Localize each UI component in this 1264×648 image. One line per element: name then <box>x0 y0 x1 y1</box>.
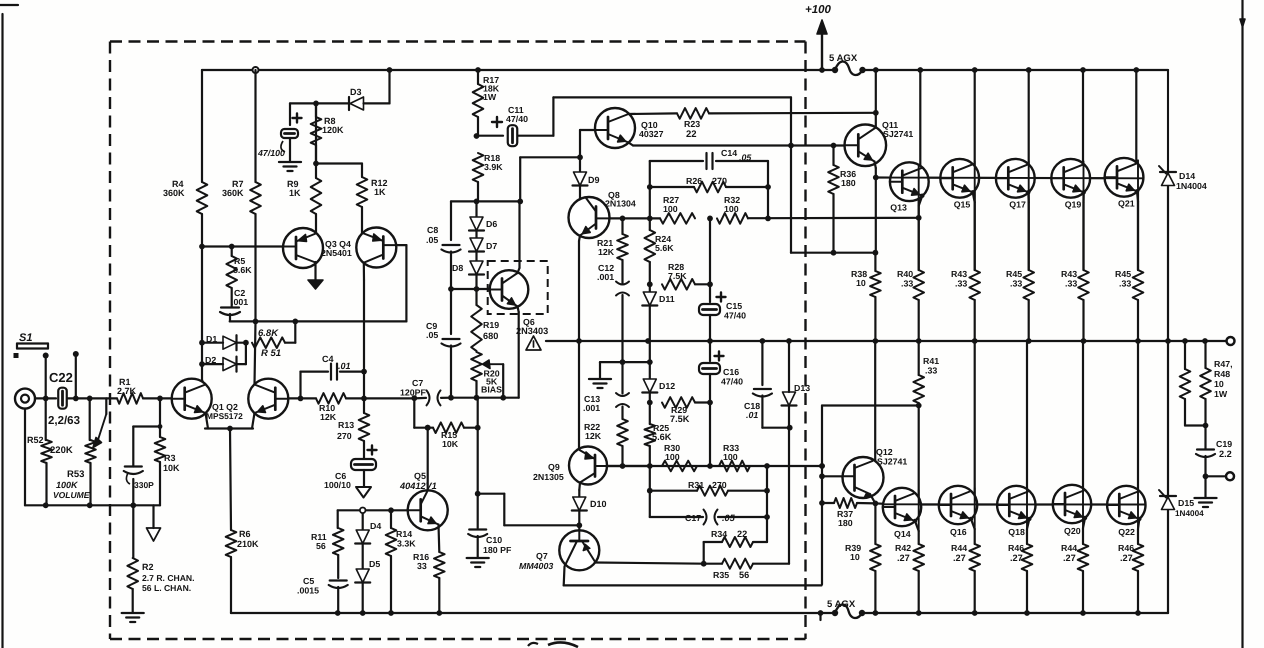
transistor Q14 <box>883 488 921 526</box>
dashed amplifier enclosure box <box>110 42 806 640</box>
svg-text:5.6K: 5.6K <box>233 265 252 275</box>
wire input ground line <box>25 504 160 506</box>
svg-text:2N1304: 2N1304 <box>605 199 636 209</box>
svg-text:1K: 1K <box>374 187 386 197</box>
transistor Q2 MPS5172 <box>248 379 288 419</box>
capacitor C16 47/40 <box>709 341 711 361</box>
svg-text:Q15: Q15 <box>954 199 971 209</box>
svg-text:R48: R48 <box>1214 369 1230 379</box>
capacitor C8 .05 <box>443 244 460 246</box>
wire Q8 emitter to output bus <box>579 236 580 242</box>
svg-text:10: 10 <box>850 552 860 562</box>
dashed box around Q6 <box>488 261 548 314</box>
resistor R2 2.7/56 <box>132 505 134 558</box>
svg-text:R45: R45 <box>1006 269 1022 279</box>
wire Q15 emitter column <box>974 178 976 270</box>
wire R34/R35 left vertical <box>703 542 705 564</box>
svg-text:47/40: 47/40 <box>721 377 743 387</box>
svg-text:6.8K: 6.8K <box>258 328 279 339</box>
wire Q3 base line <box>202 245 232 247</box>
resistor R19 680 <box>475 289 477 305</box>
svg-text:33: 33 <box>417 561 427 571</box>
resistor R4 360K <box>201 70 203 182</box>
node bottom rail junctions <box>335 610 341 616</box>
transistor Q5 40412V1 <box>408 490 448 530</box>
svg-text:R41: R41 <box>923 356 939 366</box>
svg-text:10: 10 <box>856 278 866 288</box>
svg-text:C15: C15 <box>726 301 742 311</box>
svg-text:5.6K: 5.6K <box>652 432 672 442</box>
capacitor C3 47/100 with ground <box>290 102 316 104</box>
wire Q9 base line <box>607 465 650 467</box>
wire C7 line dots <box>451 397 519 399</box>
svg-text:Q5: Q5 <box>414 471 426 481</box>
wire Q11 collector drop <box>875 70 877 113</box>
wire Q15 emitter diag <box>973 192 975 202</box>
resistor R33 100 <box>719 461 750 472</box>
wire Q10 emitter line <box>629 143 634 146</box>
wire output bus (y=341) <box>546 340 1228 342</box>
wire Q17 column overlay <box>1028 161 1030 202</box>
wire Q17 emitter diag <box>1027 192 1030 202</box>
wire Q21 collector <box>1135 70 1137 177</box>
wire Q20 emitter diag <box>1083 518 1085 528</box>
svg-text:R31: R31 <box>688 480 704 490</box>
svg-text:R23: R23 <box>684 119 700 129</box>
wire Q18 column overlay <box>1026 488 1028 529</box>
wire Q16 emitter diag <box>971 519 975 529</box>
svg-text:D9: D9 <box>588 175 600 185</box>
svg-text:1K: 1K <box>289 188 301 198</box>
svg-text:22: 22 <box>737 529 747 539</box>
svg-text:R40: R40 <box>897 269 913 279</box>
transistor Q20 <box>1053 485 1091 523</box>
wire Q10 base corner <box>580 129 595 131</box>
wire R34 right vertical <box>766 466 768 542</box>
svg-text:10K: 10K <box>442 439 459 449</box>
resistor R43 .33 (top row) <box>969 270 980 300</box>
resistor R29 7.5K <box>662 397 695 408</box>
wire Q6 collector up <box>518 268 520 273</box>
svg-text:10K: 10K <box>163 463 180 473</box>
svg-text:Q21: Q21 <box>1118 198 1135 208</box>
wire top bus corner down to D14 <box>1167 70 1169 170</box>
svg-text:330P: 330P <box>134 480 154 490</box>
wire Q14 column overlay <box>918 490 920 531</box>
diode D14 <box>1167 170 1169 172</box>
resistor R23 22 <box>629 112 678 115</box>
resistor R14 3.3K <box>390 510 392 528</box>
wire Q12 emitter node <box>870 494 875 503</box>
svg-text:R42: R42 <box>895 543 911 553</box>
svg-text:R2: R2 <box>142 562 154 572</box>
svg-text:12K: 12K <box>585 431 602 441</box>
svg-text:40412V1: 40412V1 <box>399 481 437 491</box>
svg-text:R13: R13 <box>338 420 354 430</box>
page frame right edge <box>1241 0 1243 648</box>
page frame left edge <box>1 14 3 648</box>
svg-text:C16: C16 <box>723 367 739 377</box>
svg-text:.27: .27 <box>1063 553 1076 563</box>
transistor Q8 2N1304 <box>569 197 610 238</box>
transistor Q15 <box>940 159 979 198</box>
transistor Q11 SJ2741 <box>845 125 887 167</box>
svg-text:56 L. CHAN.: 56 L. CHAN. <box>142 583 191 593</box>
wire Q13 emitter diag <box>919 196 923 206</box>
wire Q20 collector <box>1082 341 1084 504</box>
wire Q6 base line <box>448 286 454 292</box>
svg-text:MM4003: MM4003 <box>519 561 553 571</box>
svg-text:2.7K: 2.7K <box>117 386 137 396</box>
svg-text:7.5K: 7.5K <box>668 271 687 281</box>
svg-text:C10: C10 <box>486 535 502 545</box>
svg-text:R34: R34 <box>711 529 727 539</box>
wire Q21 column overlay <box>1137 160 1139 201</box>
resistor R39 10 <box>874 503 876 544</box>
ground below C10 <box>467 557 489 559</box>
svg-text:22: 22 <box>686 129 697 140</box>
resistor R21 12K <box>621 218 623 234</box>
svg-text:C5: C5 <box>303 576 314 586</box>
wire Q14 emitter diag <box>915 521 919 531</box>
svg-text:C19: C19 <box>1216 439 1232 449</box>
wire R31 left vertical <box>649 466 651 517</box>
transistor Q6 2N3403 <box>490 270 529 309</box>
svg-text:56: 56 <box>739 570 749 580</box>
arrow to negative below Q3 <box>314 262 316 280</box>
svg-text:Q20: Q20 <box>1064 526 1081 536</box>
svg-text:R6: R6 <box>239 529 251 539</box>
svg-text:.27: .27 <box>953 553 966 563</box>
wire Q17 collector <box>1028 70 1030 178</box>
svg-text:2.7 R. CHAN.: 2.7 R. CHAN. <box>142 573 195 583</box>
wire Q18 collector <box>1026 341 1028 505</box>
resistor R1 2.7K <box>117 393 143 404</box>
node output bus junctions <box>576 338 582 344</box>
svg-text:.0015: .0015 <box>297 586 319 596</box>
+100 supply arrow <box>821 33 823 70</box>
resistor R28 7.5K <box>662 279 695 290</box>
svg-text:R26: R26 <box>686 176 702 186</box>
resistor R13 270 <box>361 396 367 402</box>
wire R27/R32 junction <box>707 216 713 222</box>
svg-text:47/40: 47/40 <box>724 311 746 321</box>
wire Q19 column overlay <box>1083 161 1085 202</box>
svg-text:2N5401: 2N5401 <box>321 248 352 258</box>
potentiometer R53 100K VOLUME <box>89 398 91 440</box>
svg-text:D14: D14 <box>1179 171 1195 181</box>
transistor Q16 <box>939 486 977 524</box>
svg-text:40327: 40327 <box>639 129 664 139</box>
wire Q19 emitter diag <box>1082 192 1084 202</box>
potentiometer R20 5K BIAS <box>471 352 482 381</box>
capacitor C17 .05 <box>650 516 703 518</box>
wire Q16 collector <box>974 341 976 505</box>
svg-text:.001: .001 <box>231 297 248 307</box>
svg-text:R45: R45 <box>1115 269 1131 279</box>
svg-text:.001: .001 <box>583 403 600 413</box>
svg-text:270: 270 <box>337 431 352 441</box>
capacitor C18 .01 <box>754 388 771 390</box>
wire Q12 base line <box>822 475 843 477</box>
output terminal (-) <box>1226 472 1234 480</box>
resistor R6 210K <box>226 530 237 557</box>
wire to lower terminal <box>1206 475 1226 477</box>
diode D15 <box>1167 341 1169 495</box>
resistor R32 100 <box>717 213 748 224</box>
resistor R52 220K <box>45 398 47 440</box>
svg-text:360K: 360K <box>222 188 244 198</box>
wire C14/R26 right vertical <box>767 161 769 218</box>
capacitor C22 2.2/63 <box>58 388 67 409</box>
resistor R31 270 <box>650 490 697 492</box>
wire C12/C13 ground stub <box>620 359 626 365</box>
ground arrow below C6 <box>356 487 371 498</box>
svg-text:R44: R44 <box>951 543 967 553</box>
svg-text:Q9: Q9 <box>548 462 560 472</box>
svg-text:SJ2741: SJ2741 <box>883 129 913 139</box>
resistor R11 56 <box>337 510 339 528</box>
svg-text:180: 180 <box>841 178 856 188</box>
resistor R15 10K <box>414 427 433 429</box>
svg-text:680: 680 <box>483 331 498 341</box>
resistor R40 .33 (top row) <box>913 270 924 300</box>
svg-text:Q7: Q7 <box>536 551 548 561</box>
svg-text:100: 100 <box>723 452 738 462</box>
svg-text:R46: R46 <box>1008 543 1024 553</box>
svg-text:120K: 120K <box>322 125 344 135</box>
diode D8 <box>475 252 477 261</box>
resistor R46 .27 (bottom row) <box>1133 544 1144 571</box>
transistor Q21 <box>1105 158 1144 197</box>
wire Q12 collector to output bus <box>874 341 876 461</box>
capacitor C1 330P <box>132 479 134 505</box>
resistor R8 120K <box>315 103 317 117</box>
capacitor C13 .001 <box>621 362 623 393</box>
capacitor C2 .001 <box>231 288 233 307</box>
svg-text:D6: D6 <box>486 219 497 229</box>
wire Q7 lower lead line <box>563 567 566 586</box>
svg-text:2N3403: 2N3403 <box>516 326 548 336</box>
resistor R45 .33 (top row) <box>1133 270 1144 300</box>
svg-text:.05: .05 <box>426 235 438 245</box>
svg-text:5 AGX: 5 AGX <box>827 599 856 610</box>
svg-text:D13: D13 <box>794 383 810 393</box>
svg-text:7.5K: 7.5K <box>670 414 690 424</box>
diode D6 <box>475 201 477 217</box>
diode D7 <box>475 231 477 238</box>
wire Q22 column overlay <box>1137 488 1139 529</box>
svg-text:.33: .33 <box>1065 279 1077 289</box>
wire +100 top bus (right of fuse) <box>863 69 1169 71</box>
resistor R27 100 <box>660 213 695 224</box>
svg-text:100: 100 <box>663 204 678 214</box>
transistor Q3 2N5401 <box>283 228 323 268</box>
svg-text:100: 100 <box>665 452 680 462</box>
capacitor C11 47/40 bootstrap <box>478 135 503 137</box>
resistor R47 10 1W <box>1184 341 1186 369</box>
svg-text:C4: C4 <box>322 354 334 364</box>
wire +100 top bus (left of fuse) <box>202 69 835 71</box>
svg-text:R35: R35 <box>713 570 729 580</box>
wire bottom rail (left of fuse) <box>231 612 835 614</box>
svg-text:.33: .33 <box>901 279 913 289</box>
svg-text:Q13: Q13 <box>890 203 907 213</box>
wire Q6 emitter down <box>518 307 519 313</box>
svg-text:D11: D11 <box>659 294 675 304</box>
wire Q1 collector column <box>201 214 203 247</box>
resistor R26 270 <box>650 186 694 188</box>
wire Q14 collector <box>918 406 920 508</box>
wire S1 contact 2 to input line <box>75 354 77 398</box>
resistor R9 1K <box>315 103 317 178</box>
wire bootstrap corner <box>552 97 554 135</box>
svg-text:C17: C17 <box>685 513 701 523</box>
transistor Q13 <box>890 162 929 201</box>
resistor R37 180 <box>822 502 834 504</box>
wire Q22 collector <box>1137 341 1139 505</box>
capacitor C12 .001 <box>616 282 629 285</box>
wire Q11 emitter down <box>875 162 876 169</box>
svg-text:1N4004: 1N4004 <box>1176 181 1207 191</box>
resistor R51 6.8K <box>252 337 285 348</box>
svg-text:.05: .05 <box>722 513 736 523</box>
capacitor C5 .0015 <box>330 579 347 581</box>
svg-text:.05: .05 <box>739 153 751 163</box>
wire bottom base chain <box>884 503 1145 505</box>
wire Q1-Q2 emitter join <box>206 413 209 429</box>
svg-text:Q18: Q18 <box>1008 527 1025 537</box>
wire VAS node line <box>451 200 520 202</box>
wire C14/R26 left vertical <box>649 161 651 218</box>
svg-text:2,2/63: 2,2/63 <box>48 415 80 427</box>
svg-text:R47,: R47, <box>1214 359 1233 369</box>
svg-text:R44: R44 <box>1061 543 1077 553</box>
wire Q18 emitter diag <box>1027 519 1029 529</box>
diode D11 <box>649 284 651 292</box>
svg-text:5 AGX: 5 AGX <box>829 53 858 64</box>
diode D13 <box>783 392 796 406</box>
wire R32 line to Q13 emitter column <box>748 217 919 220</box>
fuse F1 5 AGX (top) <box>832 67 838 73</box>
capacitor C4 .01 <box>299 372 301 399</box>
capacitor C14 .05 <box>705 153 707 169</box>
wire Q4 collector drop <box>363 263 365 281</box>
svg-text:D10: D10 <box>590 499 607 509</box>
svg-text:10: 10 <box>1214 379 1224 389</box>
wire S1 contact to input line <box>45 356 47 399</box>
svg-text:.05: .05 <box>426 330 438 340</box>
svg-text:D7: D7 <box>486 241 497 251</box>
resistor R30 100 <box>662 461 697 472</box>
wire D9 branch line <box>520 156 580 158</box>
wire R47/R48 join <box>1185 424 1206 426</box>
wire Q16 column overlay <box>974 488 976 529</box>
svg-text:.27: .27 <box>1010 553 1023 563</box>
svg-text:47/100: 47/100 <box>257 148 285 158</box>
wire Q22 emitter diag <box>1138 519 1139 529</box>
input jack J1 <box>15 389 35 409</box>
transistor Q1 MPS5172 <box>172 379 212 419</box>
transistor Q7 MM4003 <box>559 530 599 570</box>
resistor R7 360K <box>254 70 256 182</box>
resistor R16 33 <box>437 525 440 553</box>
svg-text:D3: D3 <box>350 87 362 97</box>
diode D10 <box>578 483 581 491</box>
wire bottom rail (right of fuse) <box>862 612 1168 614</box>
wire C18 column <box>761 341 763 385</box>
svg-text:+100: +100 <box>805 4 832 16</box>
svg-text:56: 56 <box>316 541 326 551</box>
svg-text:210K: 210K <box>237 539 259 549</box>
capacitor C7 120PF <box>364 397 414 399</box>
resistor R46 .27 (bottom row) <box>1022 544 1033 571</box>
resistor R45 .33 (top row) <box>1023 270 1034 300</box>
wire R41 bottom line <box>822 404 919 406</box>
svg-text:C14: C14 <box>721 148 737 158</box>
ground below R2 <box>122 612 144 614</box>
svg-text:.33: .33 <box>955 279 967 289</box>
svg-text:47/40: 47/40 <box>506 114 528 124</box>
output terminal (+) <box>1227 337 1235 345</box>
wire Q17 emitter column <box>1028 178 1030 270</box>
svg-text:.01: .01 <box>746 410 758 420</box>
svg-text:.33: .33 <box>1119 279 1131 289</box>
transistor Q17 <box>996 159 1035 198</box>
wire Q5 base line <box>338 509 408 511</box>
resistor R17 18K 1W <box>477 70 479 84</box>
svg-text:Q12: Q12 <box>876 447 893 457</box>
wire C22 to R1 <box>67 397 117 399</box>
diode D13 column <box>788 406 790 564</box>
wire Q9 emitter to bus <box>578 341 580 449</box>
resistor R34 22 <box>704 541 722 543</box>
transistor Q22 <box>1107 486 1145 524</box>
wire Q2 base node <box>288 397 316 399</box>
wire jack ground drop <box>24 409 26 506</box>
svg-text:VOLUME: VOLUME <box>53 490 90 500</box>
resistor R44 .27 (bottom row) <box>969 544 980 571</box>
wire top base chain <box>876 176 1143 179</box>
svg-text:5.6K: 5.6K <box>655 243 674 253</box>
node top bus junctions <box>253 67 259 73</box>
svg-text:Q17: Q17 <box>1009 199 1026 209</box>
svg-text:100/10: 100/10 <box>324 480 351 490</box>
svg-text:D15: D15 <box>1178 498 1194 508</box>
resistor R44 .27 (bottom row) <box>1078 544 1089 571</box>
diode D4 <box>362 510 364 530</box>
capacitor C19 2.2 <box>1204 426 1206 449</box>
capacitor C9 .05 <box>443 338 460 340</box>
wire Q13 emitter column <box>918 182 920 270</box>
wire mid node line <box>607 465 650 467</box>
transistor Q4 2N5401 <box>356 228 396 268</box>
ground at C12/C13 junction <box>589 378 611 380</box>
resistor R36 180 <box>832 146 834 166</box>
svg-text:270: 270 <box>712 480 727 490</box>
wire Q19 emitter column <box>1082 178 1084 270</box>
ground at C19 <box>1204 476 1206 497</box>
wire R8 bottom to R12 top <box>316 162 362 164</box>
resistor R38 10 <box>874 253 876 271</box>
wire Q21 emitter diag <box>1137 191 1138 201</box>
wire Q19 collector <box>1082 70 1084 178</box>
svg-text:1N4004: 1N4004 <box>1175 509 1204 518</box>
svg-text:C7: C7 <box>412 378 423 388</box>
svg-text:Q14: Q14 <box>894 529 911 539</box>
svg-text:SJ2741: SJ2741 <box>877 457 907 467</box>
svg-text:R43: R43 <box>951 269 967 279</box>
